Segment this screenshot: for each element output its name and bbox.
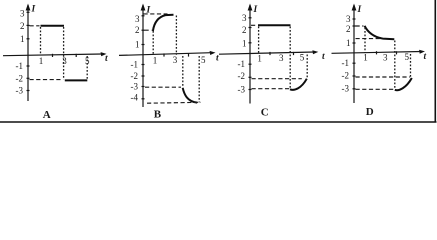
svg-text:t: t xyxy=(216,54,219,64)
svg-text:3: 3 xyxy=(173,55,178,65)
svg-text:-1: -1 xyxy=(131,60,139,70)
svg-text:5: 5 xyxy=(201,55,206,65)
svg-text:2: 2 xyxy=(135,25,140,35)
svg-text:3: 3 xyxy=(62,56,67,66)
svg-text:-1: -1 xyxy=(238,59,246,69)
svg-text:1: 1 xyxy=(346,38,351,48)
svg-text:3: 3 xyxy=(383,53,388,63)
bottom border line xyxy=(0,121,437,123)
right border line xyxy=(434,0,436,123)
svg-text:1: 1 xyxy=(153,56,158,66)
svg-text:I: I xyxy=(31,5,36,15)
svg-text:I: I xyxy=(357,5,362,15)
svg-text:-3: -3 xyxy=(342,84,350,94)
svg-text:3: 3 xyxy=(346,14,351,24)
svg-text:-2: -2 xyxy=(16,73,24,83)
svg-text:I: I xyxy=(253,5,258,15)
svg-text:-1: -1 xyxy=(16,61,24,71)
svg-text:1: 1 xyxy=(135,40,140,50)
svg-text:5: 5 xyxy=(405,52,410,62)
svg-text:2: 2 xyxy=(242,25,247,35)
svg-text:B: B xyxy=(154,109,162,121)
svg-text:2: 2 xyxy=(346,24,351,34)
svg-text:3: 3 xyxy=(135,14,140,24)
svg-text:3: 3 xyxy=(20,9,25,19)
svg-text:-1: -1 xyxy=(342,58,350,68)
svg-text:3: 3 xyxy=(279,53,284,63)
svg-text:A: A xyxy=(43,109,51,121)
svg-text:3: 3 xyxy=(242,13,247,23)
svg-text:t: t xyxy=(105,54,108,64)
svg-text:t: t xyxy=(424,52,427,62)
svg-text:t: t xyxy=(322,52,325,62)
svg-text:C: C xyxy=(261,106,269,118)
svg-text:1: 1 xyxy=(257,54,262,64)
svg-text:2: 2 xyxy=(20,21,25,31)
svg-text:1: 1 xyxy=(363,53,368,63)
svg-text:-2: -2 xyxy=(238,71,246,81)
svg-text:D: D xyxy=(366,106,374,118)
svg-text:-2: -2 xyxy=(342,71,350,81)
svg-text:5: 5 xyxy=(300,53,305,63)
svg-text:1: 1 xyxy=(39,56,44,66)
svg-text:-4: -4 xyxy=(131,92,139,102)
svg-text:1: 1 xyxy=(20,34,25,44)
svg-text:-3: -3 xyxy=(16,86,24,96)
svg-text:1: 1 xyxy=(242,39,247,49)
svg-text:-2: -2 xyxy=(131,71,139,81)
svg-text:-3: -3 xyxy=(131,82,139,92)
svg-text:-3: -3 xyxy=(238,85,246,95)
